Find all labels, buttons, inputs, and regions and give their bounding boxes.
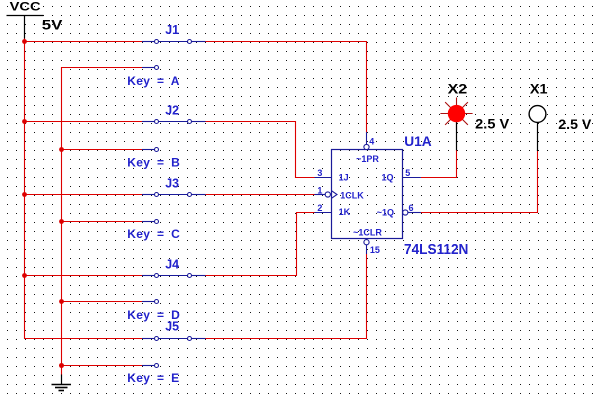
svg-text:3: 3 — [317, 168, 322, 178]
power VCC symbol — [7, 0, 44, 38]
node: junction bus/J3 lower — [59, 219, 64, 224]
probe X1 (off) — [529, 106, 546, 151]
node: junction bus/J2 lower — [59, 147, 64, 152]
svg-text:2: 2 — [317, 203, 322, 213]
switch J1 — [142, 40, 206, 70]
svg-text:U1A: U1A — [404, 133, 431, 149]
svg-text:6: 6 — [409, 203, 414, 213]
svg-text:Key = C: Key = C — [127, 227, 180, 241]
svg-text:5V: 5V — [42, 17, 63, 33]
pin 4 ~1PR stub — [364, 132, 369, 149]
node: junction ground — [59, 363, 64, 368]
svg-text:15: 15 — [370, 245, 380, 255]
wire: J5 common to U1A pin 15 (~1CLR) — [206, 254, 367, 339]
node: junction VCC/J1 — [22, 39, 27, 44]
svg-text:2.5 V: 2.5 V — [475, 116, 510, 132]
node: junction rail/J3 — [22, 192, 27, 197]
switch J5 — [142, 337, 206, 368]
svg-text:Key = B: Key = B — [127, 155, 180, 169]
wire: J4 lower throw to ground bus — [62, 301, 143, 303]
wire: VCC rail vertical (left bus) — [25, 38, 143, 339]
svg-text:J5: J5 — [165, 320, 179, 334]
svg-text:~1PR: ~1PR — [356, 154, 379, 164]
pin 2 1K stub — [315, 212, 332, 214]
wire: J2 common to U1A pin 3 (1J) — [206, 122, 315, 178]
svg-text:4: 4 — [369, 137, 374, 147]
svg-text:X2: X2 — [448, 81, 468, 96]
wire: VCC rail to J2 throw — [25, 121, 143, 123]
svg-text:J4: J4 — [165, 258, 179, 272]
op-amp U1A body (74LS112N JK flip-flop) — [332, 150, 403, 239]
wire: J1 common to U1A pin 4 (~1PR) — [206, 42, 367, 133]
wire: VCC to J1 throw — [25, 41, 143, 43]
node: junction bus/J4 lower — [59, 299, 64, 304]
switch J3 — [142, 193, 206, 224]
wire: U1A pin 6 (~1Q) to probe X1 — [421, 151, 538, 213]
svg-text:1Q: 1Q — [381, 172, 393, 182]
wire: U1A pin 5 (1Q) to probe X2 — [421, 150, 457, 178]
wire: J4 common to U1A pin 2 (1K) — [206, 213, 315, 276]
pin 5 1Q stub — [403, 177, 421, 179]
wire: J5 lower throw to ground bus — [62, 365, 143, 367]
svg-text:~1CLR: ~1CLR — [353, 227, 382, 237]
pin 1 1CLK stub — [315, 191, 338, 199]
wire: ground bus from J1 lower throw — [62, 68, 143, 376]
wire: J3 common to U1A pin 1 (1CLK) — [206, 194, 315, 196]
switch J2 — [142, 120, 206, 152]
svg-text:J3: J3 — [165, 177, 179, 191]
svg-text:1CLK: 1CLK — [340, 191, 364, 201]
svg-text:J2: J2 — [165, 104, 179, 118]
svg-text:X1: X1 — [530, 81, 548, 96]
pin 3 1J stub — [315, 177, 332, 179]
ground — [52, 375, 72, 391]
probe X2 (lit) — [440, 98, 472, 151]
wire: J2 lower throw to ground bus — [62, 149, 143, 151]
switch J4 — [142, 274, 206, 304]
svg-text:5: 5 — [405, 168, 410, 178]
wire: VCC rail to J3 throw — [25, 194, 143, 196]
svg-text:1K: 1K — [339, 207, 351, 217]
svg-text:2.5 V: 2.5 V — [558, 116, 592, 132]
svg-text:1J: 1J — [339, 172, 349, 182]
svg-text:74LS112N: 74LS112N — [404, 242, 468, 258]
wire: VCC rail to J4 throw — [25, 275, 143, 277]
svg-text:Key = A: Key = A — [127, 74, 179, 88]
svg-text:J1: J1 — [165, 23, 179, 37]
wire: J3 lower throw to ground bus — [62, 221, 143, 223]
svg-text:VCC: VCC — [10, 0, 41, 13]
pin 15 ~1CLR stub — [364, 240, 369, 254]
node: junction bus/J5 lower — [59, 363, 64, 368]
svg-text:Key = E: Key = E — [127, 371, 179, 385]
svg-text:~1Q: ~1Q — [377, 207, 394, 217]
pin 6 ~1Q stub — [403, 210, 421, 215]
svg-text:1: 1 — [317, 186, 322, 196]
node: junction rail/J2 — [22, 119, 27, 124]
node: junction rail/J4 — [22, 273, 27, 278]
